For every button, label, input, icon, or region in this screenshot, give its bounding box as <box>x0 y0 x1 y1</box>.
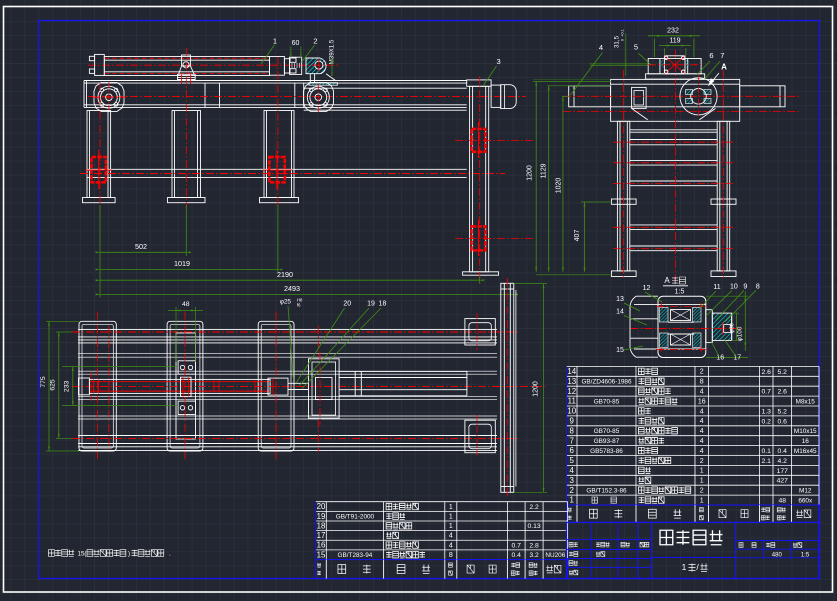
detail A: small red ticks <box>660 303 662 308</box>
svg-text:10: 10 <box>567 407 576 416</box>
svg-text:16: 16 <box>317 541 326 550</box>
plan view: sleeper 1 <box>79 321 116 451</box>
svg-text:0.7: 0.7 <box>512 542 522 549</box>
svg-text:GB/T91-2000: GB/T91-2000 <box>336 513 375 520</box>
BOM row 15 <box>316 549 568 551</box>
plan view: sleeper 2 bolt plates <box>178 361 195 374</box>
svg-text:4: 4 <box>570 466 575 475</box>
plan view right dim 1200 <box>543 284 545 492</box>
side view: gussets <box>632 108 648 119</box>
BOM row 8 <box>567 425 820 427</box>
BOM row 20 <box>316 501 568 503</box>
dim 2493 <box>100 293 514 295</box>
dim 232 <box>654 39 656 58</box>
svg-text:16: 16 <box>802 438 810 445</box>
plan view: wheel centerlines <box>108 326 110 452</box>
svg-text:48: 48 <box>182 301 190 308</box>
BOM row 12 <box>567 385 820 387</box>
svg-text:5: 5 <box>634 43 638 52</box>
svg-text:2.6: 2.6 <box>778 389 788 396</box>
plan view ext lines <box>46 320 79 322</box>
svg-text:.: . <box>169 550 171 557</box>
side view: left column <box>617 121 629 271</box>
svg-text:4: 4 <box>449 533 453 540</box>
svg-text:+0.1: +0.1 <box>621 29 625 37</box>
front view: rod eye with cyan section hatch <box>306 58 326 74</box>
detail A: dim phi60 <box>736 313 738 340</box>
front view: cylinder rear clevis <box>95 54 105 75</box>
svg-text:1129: 1129 <box>540 163 547 178</box>
svg-text:11: 11 <box>713 284 720 291</box>
svg-text:4: 4 <box>449 542 453 549</box>
title block right cells <box>736 540 820 542</box>
svg-text:1200: 1200 <box>527 165 534 181</box>
front view: column 1 <box>87 111 111 198</box>
svg-text:1: 1 <box>700 478 704 485</box>
plan view: guide block <box>309 359 340 418</box>
dim 625 <box>58 332 60 438</box>
front view: rod thread section <box>290 57 302 74</box>
svg-text:0.6: 0.6 <box>778 418 788 425</box>
side view: left wing <box>569 86 611 107</box>
dim 233 <box>72 367 74 406</box>
detail A: left fork <box>630 296 658 357</box>
detail A: top bearing section <box>660 308 669 323</box>
svg-text:GB/ZD4606-1986: GB/ZD4606-1986 <box>581 379 632 386</box>
svg-text:660x: 660x <box>798 497 813 504</box>
plan view: cylinder (red) <box>89 379 270 393</box>
svg-text:1: 1 <box>700 468 704 475</box>
svg-text:17: 17 <box>733 354 741 361</box>
svg-text:): ) <box>128 550 130 557</box>
plan view: cylinder mount at sleeper2 <box>181 377 192 396</box>
svg-text:8: 8 <box>449 552 453 559</box>
BOM row 18 <box>316 520 568 522</box>
BOM row 2 <box>567 484 820 486</box>
front view: eye support bracket <box>309 74 311 83</box>
front view: rail joint lines <box>204 83 206 107</box>
front view: red hatch square col1 <box>92 157 106 182</box>
svg-text:19: 19 <box>317 512 326 521</box>
svg-text:4: 4 <box>599 43 603 52</box>
svg-text:M10x15: M10x15 <box>794 428 817 435</box>
svg-text:2.6: 2.6 <box>762 369 772 376</box>
detail A: hub middle <box>668 321 694 323</box>
BOM row 6 <box>567 445 820 447</box>
side view: bearing wheel circle (detail A source) <box>680 78 717 115</box>
plan view: crossbeam <box>501 283 514 492</box>
svg-text:15: 15 <box>317 550 326 559</box>
svg-text:480: 480 <box>772 552 783 558</box>
BOM row 4 <box>567 464 820 466</box>
svg-text:GB5783-86: GB5783-86 <box>590 448 623 455</box>
svg-text:NU206: NU206 <box>545 552 565 559</box>
front view: column 3 <box>264 111 294 198</box>
svg-text:1020: 1020 <box>556 178 563 194</box>
svg-text:31,5: 31,5 <box>614 35 621 48</box>
svg-text:GB93-87: GB93-87 <box>594 438 620 445</box>
title block left tiny texts <box>569 542 578 547</box>
BOM row 10 <box>567 405 820 407</box>
svg-text:13: 13 <box>567 377 576 386</box>
BOM row 14 <box>567 365 820 367</box>
svg-text:7: 7 <box>570 436 574 445</box>
technical note text <box>49 550 75 557</box>
svg-text:119: 119 <box>669 38 680 45</box>
svg-text:M12: M12 <box>799 488 812 495</box>
svg-text:4: 4 <box>700 408 704 415</box>
plan view: sleeper 3 <box>258 321 294 451</box>
svg-text:2: 2 <box>570 486 574 495</box>
front view: cylinder rod head <box>270 57 285 76</box>
svg-text:9: 9 <box>743 283 747 290</box>
svg-text:2.1: 2.1 <box>762 458 772 465</box>
svg-text:12: 12 <box>567 387 576 396</box>
svg-text:0.4: 0.4 <box>778 448 788 455</box>
dim extension lines <box>533 81 611 83</box>
svg-text:502: 502 <box>135 242 147 251</box>
svg-text:12: 12 <box>643 285 651 292</box>
front view: column 2 <box>172 111 201 198</box>
front view: col4 red hatch squares <box>472 129 486 152</box>
svg-text:1019: 1019 <box>174 259 190 268</box>
dim 1129 <box>548 86 550 272</box>
svg-text:1: 1 <box>449 504 453 511</box>
svg-text:3: 3 <box>570 476 575 485</box>
svg-text:6: 6 <box>570 446 575 455</box>
svg-text:4.2: 4.2 <box>778 458 788 465</box>
svg-text:13: 13 <box>616 296 624 303</box>
dim 1019 <box>100 269 278 271</box>
svg-text:20: 20 <box>317 502 326 511</box>
svg-text:M16x45: M16x45 <box>794 448 817 455</box>
side view: right wing <box>740 86 785 107</box>
plan view: rod coupling <box>268 378 288 395</box>
front view: hydraulic cylinder body <box>104 57 269 76</box>
svg-text:177: 177 <box>777 468 789 475</box>
front view: lower rail lines <box>87 168 467 170</box>
svg-text:2493: 2493 <box>284 284 300 293</box>
svg-text:GB/T283-94: GB/T283-94 <box>338 552 373 559</box>
svg-text:0.1: 0.1 <box>762 448 772 455</box>
svg-text:1: 1 <box>570 496 574 505</box>
front view: middle wheel assembly <box>304 83 334 112</box>
svg-text:1: 1 <box>682 562 687 572</box>
svg-text:1: 1 <box>700 497 704 504</box>
BOM row 9 <box>567 415 820 417</box>
svg-text:GB70-85: GB70-85 <box>594 428 620 435</box>
svg-text:φ100: φ100 <box>736 326 743 341</box>
side view green dims: 1200 <box>535 82 537 272</box>
svg-text:1200: 1200 <box>533 381 540 397</box>
svg-text:2: 2 <box>700 458 704 465</box>
svg-text:17: 17 <box>317 531 326 540</box>
dim 48 <box>175 307 177 362</box>
svg-text:8: 8 <box>570 426 575 435</box>
title block left grid <box>567 539 652 541</box>
side view: bracket detail left of center <box>632 87 647 108</box>
BOM header row <box>567 505 820 522</box>
detail A: bottom bearing section <box>660 333 669 348</box>
svg-text:15: 15 <box>616 347 624 354</box>
plan view: bottom end bracket <box>465 420 495 453</box>
svg-text:5.2: 5.2 <box>778 369 788 376</box>
front view: right end bracket <box>501 85 517 109</box>
svg-text:2190: 2190 <box>277 270 293 279</box>
svg-text:60: 60 <box>292 40 300 47</box>
svg-text:0.2: 0.2 <box>762 418 772 425</box>
svg-text:GB70-85: GB70-85 <box>594 398 620 405</box>
svg-text:2: 2 <box>313 37 317 46</box>
svg-text:0: 0 <box>621 39 625 41</box>
svg-text:1.3: 1.3 <box>762 408 772 415</box>
svg-text:1:5: 1:5 <box>675 289 685 296</box>
BOM row 16 <box>316 539 568 541</box>
plan view: rails horizontal lines <box>78 328 497 330</box>
side view: right column <box>717 121 730 271</box>
plan view: rail red centerlines <box>72 331 520 333</box>
plan view: sleeper 2 <box>167 321 203 451</box>
svg-text:775: 775 <box>40 376 47 388</box>
BOM header row <box>316 560 568 579</box>
svg-text:3: 3 <box>497 57 501 66</box>
svg-text:GB/T152.3-86: GB/T152.3-86 <box>586 487 627 494</box>
svg-text:8: 8 <box>700 379 704 386</box>
svg-text:20: 20 <box>343 301 351 308</box>
svg-text:232: 232 <box>667 28 679 35</box>
svg-text:4: 4 <box>700 448 704 455</box>
svg-text:1: 1 <box>273 37 277 46</box>
svg-text:M8x15: M8x15 <box>796 398 816 405</box>
svg-text:φ60: φ60 <box>729 323 735 333</box>
svg-text:4: 4 <box>700 418 704 425</box>
BOM row 13 <box>567 375 820 377</box>
plan view: sleeper red centerlines <box>97 312 99 460</box>
BOM row 5 <box>567 455 820 457</box>
front view: upper rail band <box>84 80 467 82</box>
svg-text:2.8: 2.8 <box>529 542 539 549</box>
svg-text:14: 14 <box>567 367 576 376</box>
dim 119 <box>663 48 665 55</box>
detail A: dim phi100 <box>744 292 746 352</box>
svg-text:1:5: 1:5 <box>801 552 810 558</box>
plan view left dims: 775 <box>48 321 50 451</box>
side view: motor/gearbox on top <box>646 74 705 79</box>
svg-text:15(: 15( <box>78 550 88 557</box>
dim 407 <box>584 202 586 272</box>
plan view: pusher beam <box>339 370 467 372</box>
svg-text:3.2: 3.2 <box>529 552 539 559</box>
svg-text:9: 9 <box>570 416 575 425</box>
detail A: right shaft + nut section <box>706 310 713 343</box>
svg-text:4: 4 <box>700 438 704 445</box>
svg-text:5.2: 5.2 <box>778 408 788 415</box>
svg-text:2: 2 <box>700 487 704 494</box>
svg-text:0.13: 0.13 <box>527 523 540 530</box>
svg-text:2: 2 <box>700 369 704 376</box>
svg-text:4: 4 <box>700 388 704 395</box>
detail A: wheel body <box>658 296 706 357</box>
row1 drawing-number cjk <box>592 497 597 503</box>
svg-text:18: 18 <box>379 301 387 308</box>
svg-text:16: 16 <box>716 354 724 361</box>
svg-text:0.4: 0.4 <box>512 552 522 559</box>
svg-text:18: 18 <box>317 521 326 530</box>
dim 2190 <box>100 279 480 281</box>
svg-text:A: A <box>721 63 727 72</box>
title block name: drawing title <box>660 530 722 545</box>
svg-text:7: 7 <box>720 51 724 60</box>
svg-text:φ25: φ25 <box>280 299 292 306</box>
svg-text:2.2: 2.2 <box>529 504 539 511</box>
svg-text:4: 4 <box>700 428 704 435</box>
BOM row 11 <box>567 395 820 397</box>
front view: red hatch square col3 <box>269 157 285 182</box>
plan view: top end bracket <box>465 319 495 345</box>
side view: cross rungs <box>630 129 717 131</box>
title block outer <box>567 522 820 578</box>
front view: column red centerlines <box>99 83 101 212</box>
svg-text:A: A <box>664 276 670 285</box>
front view: left wheel assembly <box>94 83 124 112</box>
detail A: main centerline <box>631 328 741 330</box>
side view: central beam box <box>611 79 740 121</box>
front view: cylinder trunnion mount <box>182 55 191 66</box>
svg-text:8: 8 <box>756 283 760 290</box>
svg-text:5: 5 <box>570 456 575 465</box>
svg-text:48: 48 <box>778 497 786 504</box>
BOM row 3 <box>567 474 820 476</box>
svg-text:1: 1 <box>449 513 453 520</box>
svg-text:1: 1 <box>449 523 453 530</box>
svg-text:11: 11 <box>568 397 576 406</box>
svg-text:427: 427 <box>777 478 789 485</box>
svg-text:625: 625 <box>50 379 57 391</box>
BOM row 19 <box>316 510 568 512</box>
front view: column 4 (right, item 3) <box>467 80 491 86</box>
front view dims: 502 <box>99 205 101 298</box>
svg-text:407: 407 <box>574 230 581 242</box>
front view: main red centerline <box>88 96 526 98</box>
svg-text:233: 233 <box>64 381 71 393</box>
BOM row 1 <box>567 494 820 496</box>
svg-text:10: 10 <box>730 283 738 290</box>
svg-text:14: 14 <box>616 308 624 315</box>
BOM row 7 <box>567 435 820 437</box>
svg-text:16: 16 <box>698 398 706 405</box>
BOM row 17 <box>316 530 568 532</box>
side view: center red centerline <box>675 50 677 283</box>
svg-text:0.7: 0.7 <box>762 389 772 396</box>
dim 1020 <box>562 96 564 271</box>
svg-text:19: 19 <box>367 301 375 308</box>
svg-text:6: 6 <box>709 51 713 60</box>
